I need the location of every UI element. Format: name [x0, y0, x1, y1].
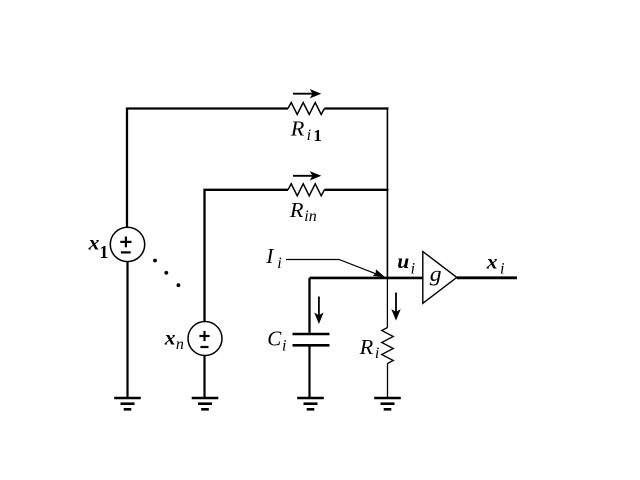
resistor R_in: [288, 184, 324, 196]
svg-text:x: x: [164, 325, 176, 349]
wire xn to ground: [203, 355, 205, 398]
svg-text:i: i: [500, 260, 504, 277]
label u_i: [397, 249, 415, 277]
wire R_in to right rail: [324, 189, 388, 191]
svg-text:i: i: [307, 127, 311, 144]
current arrow into C_i: [314, 297, 323, 325]
wire right rail (top to node): [386, 107, 388, 278]
voltage source xn: [188, 322, 222, 356]
capacitor C_i: [293, 334, 330, 345]
ground (x1): [114, 398, 141, 409]
wire C_i to ground: [308, 347, 310, 398]
label C_i: [267, 327, 286, 355]
svg-text:i: i: [411, 261, 415, 278]
svg-text:I: I: [265, 244, 274, 268]
wire R_i1 to right rail: [324, 107, 388, 109]
wire from x1 up and across to R_i1: [127, 109, 288, 229]
label I_i: [265, 244, 281, 272]
ground (R_i): [374, 398, 401, 409]
svg-text:R: R: [289, 198, 304, 222]
wire x1 to ground: [126, 261, 128, 398]
current arrow above R_in: [293, 171, 321, 180]
svg-text:1: 1: [99, 242, 108, 262]
label R_i1: [290, 117, 322, 145]
wire output x_i: [457, 276, 517, 279]
label x_n: [164, 325, 184, 353]
voltage source x1: [110, 227, 144, 261]
current arrow into R_i: [391, 293, 400, 321]
label x_i: [486, 249, 505, 277]
svg-text:i: i: [375, 345, 379, 362]
svg-text:n: n: [176, 336, 184, 353]
svg-text:x: x: [88, 231, 100, 255]
resistor R_i1: [288, 103, 324, 115]
svg-text:in: in: [304, 208, 316, 225]
op-amp g (amplifier triangle): [423, 252, 457, 304]
svg-text:1: 1: [313, 126, 322, 145]
node wire u_i: [310, 277, 424, 280]
label R_in: [289, 198, 317, 225]
ground (C_i): [297, 398, 324, 409]
svg-text:R: R: [359, 335, 374, 359]
ellipsis dots: [153, 259, 180, 288]
svg-text:i: i: [277, 255, 281, 272]
wire capacitor branch down from node: [308, 278, 310, 333]
svg-text:R: R: [290, 117, 305, 141]
svg-text:i: i: [282, 337, 286, 354]
svg-text:g: g: [430, 261, 442, 286]
svg-text:u: u: [397, 249, 409, 273]
current pointer I_i into node: [286, 260, 385, 278]
svg-text:C: C: [267, 327, 282, 351]
resistor R_i: [382, 328, 394, 364]
wire rail below node to R_i: [386, 278, 388, 328]
ground (xn): [192, 398, 219, 409]
wire from xn up and across to R_in: [205, 190, 289, 322]
wire R_i to ground: [387, 364, 389, 398]
current arrow above R_i1: [293, 89, 321, 98]
label R_i: [359, 335, 380, 362]
label x_1: [88, 231, 109, 263]
svg-text:x: x: [486, 249, 498, 273]
